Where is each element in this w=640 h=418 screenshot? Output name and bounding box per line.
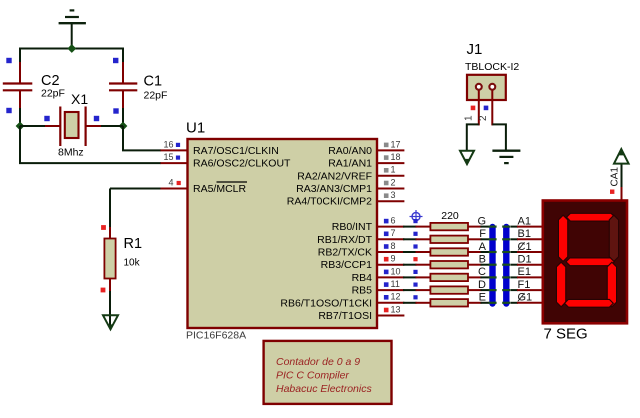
svg-text:RA0/AN0: RA0/AN0 [328,145,372,157]
wire pin to resistor R6 [403,276,417,278]
wire R1 to power arrow [109,291,111,325]
wire down to R1 [109,189,111,229]
pin number 1 [384,165,396,175]
pin 2 lead J1 [478,90,492,125]
svg-text:TBLOCK-I2: TBLOCK-I2 [465,61,519,73]
power arrow down (R1) [103,315,118,329]
wire left junction to crystal [20,125,46,127]
wire bus to display E1 [511,276,519,278]
pin number 6 [384,216,396,226]
svg-text:C1: C1 [144,74,163,90]
wire C2 top lead [19,49,21,64]
pin 8 stub [377,251,404,253]
pin number 12 [384,292,401,302]
resistor R8 220 [413,295,481,306]
node F1 label [518,279,531,291]
wire pin to resistor R4 [403,251,417,253]
bus entry left [489,276,497,278]
node B1 label [518,228,531,240]
pin 12 stub [377,302,404,304]
resistor R1 10k [101,225,142,292]
svg-text:13: 13 [391,304,401,314]
svg-text:22pF: 22pF [144,90,168,102]
pin number 2 [384,177,396,187]
svg-text:D1: D1 [518,254,532,266]
svg-text:10: 10 [391,266,401,276]
svg-text:16: 16 [163,139,173,149]
wire ground to junction [71,24,73,49]
wire C1 top lead [122,49,124,64]
svg-text:9: 9 [391,254,396,264]
svg-text:F: F [479,228,486,240]
wire CA1 to display [621,186,623,201]
bus entry left [489,289,497,291]
pin 17 stub [377,149,404,151]
pin 7 stub [377,238,404,240]
svg-text:RB2/TX/CK: RB2/TX/CK [318,247,372,259]
wire J1 pin1 to power arrow [467,124,479,151]
wire bus to display F1 [511,289,519,291]
svg-text:RA3/AN3/CMP1: RA3/AN3/CMP1 [296,183,372,195]
svg-text:G: G [477,215,486,227]
wire bus to display G1 [511,302,519,304]
svg-text:RB7/T1OSI: RB7/T1OSI [318,310,372,322]
svg-text:3: 3 [391,190,396,200]
bus entry right [502,264,510,266]
connector J1 TBLOCK-I2 [465,41,519,100]
bus entry left [489,238,497,240]
wire C1 bottom lead [122,108,124,126]
svg-text:RB3/CCP1: RB3/CCP1 [321,259,373,271]
bus entry left [489,302,497,304]
pin 11 stub [377,289,404,291]
svg-text:R1: R1 [124,236,143,252]
svg-text:18: 18 [391,152,401,162]
bus entry right [502,226,510,228]
pin number 7 [384,228,396,238]
svg-text:F1: F1 [518,279,531,291]
svg-text:6: 6 [391,216,396,226]
pin 4 stub [161,188,187,190]
pin 13 stub [377,315,404,317]
wire resistor to bus [481,264,490,266]
svg-text:2: 2 [478,115,489,121]
wire bus to display A1 [511,226,519,228]
svg-text:RA7/OSC1/CLKIN: RA7/OSC1/CLKIN [193,145,279,157]
bus entry left [489,251,497,253]
wire left junction down to pin15 [19,126,21,163]
svg-text:4: 4 [168,177,173,187]
wire pin to resistor R7 [403,289,417,291]
svg-text:A: A [479,241,487,253]
wire bus to display C1 [511,251,519,253]
pin number 4 [168,177,180,187]
svg-text:22pF: 22pF [41,88,65,100]
segment B (unlit) [609,215,618,261]
wire right junction down to pin16 [122,126,124,150]
pin number 15 [163,152,180,162]
wire pin4 to R1 [110,188,161,190]
bus 1 (left) [489,227,495,304]
capacitor C2 [3,58,65,113]
capacitor C1 [109,58,167,114]
op-amp U1 PIC16F628A body [186,120,377,342]
bus entry right [502,238,510,240]
pin number 10 [384,266,401,276]
bus entry right [502,251,510,253]
wire resistor to bus [481,289,490,291]
pin 10 stub [377,276,404,278]
svg-text:RA4/T0CKI/CMP2: RA4/T0CKI/CMP2 [287,196,372,208]
pin 2 stub [377,188,404,190]
pin number 9 [384,254,396,264]
pin number 16 [163,139,180,149]
bus entry right [502,289,510,291]
resistor R4 220 [413,244,481,255]
svg-text:E1: E1 [518,266,531,278]
svg-text:E: E [479,292,486,304]
pin 9 stub [377,264,404,266]
svg-text:7 SEG: 7 SEG [544,326,588,343]
resistor R3 220 [413,232,481,243]
svg-text:RB5: RB5 [352,285,373,297]
svg-text:17: 17 [391,139,401,149]
wire resistor to bus [481,302,490,304]
pin name RA5/MCLR with overline [193,182,247,195]
wire C2 bottom lead [19,108,21,126]
wire crystal to right junction [101,125,123,127]
svg-text:RA2/AN2/VREF: RA2/AN2/VREF [297,170,372,182]
svg-text:RB4: RB4 [352,272,373,284]
svg-text:A1: A1 [518,215,531,227]
pin 6 stub [377,226,404,228]
wire to OSC1 pin16 [122,149,161,151]
origin marker crosshair [410,210,423,223]
bus entry left [489,226,497,228]
svg-text:C: C [478,266,486,278]
svg-text:11: 11 [391,279,400,289]
svg-text:RA1/AN1: RA1/AN1 [328,158,372,170]
svg-text:CA1: CA1 [609,167,620,187]
node CA1 label [609,167,620,194]
segment A (lit) [567,213,616,221]
pin 1 stub [377,175,404,177]
segment C (lit) [607,262,616,307]
svg-text:1: 1 [464,115,475,121]
svg-text:G1: G1 [518,292,533,304]
svg-text:RB0/INT: RB0/INT [332,221,373,233]
pin 3 stub [377,200,404,202]
segment G (lit) [566,258,614,266]
resistor R7 220 [413,283,481,294]
svg-text:8: 8 [391,241,396,251]
svg-text:10k: 10k [124,258,141,269]
pin number 11 [384,279,400,289]
svg-text:Habacuc Electronics: Habacuc Electronics [276,383,372,395]
wire pin to resistor R2 [403,226,417,228]
svg-text:X1: X1 [71,91,88,107]
resistor R2 220 [413,219,481,230]
svg-text:B: B [479,254,486,266]
svg-text:D: D [478,279,486,291]
svg-text:PIC16F628A: PIC16F628A [186,330,246,342]
node junction right (C1/X1) [119,122,128,131]
pin number 18 [384,152,401,162]
svg-text:PIC C Compiler: PIC C Compiler [276,370,349,382]
node junction top [67,44,76,53]
node junction left (C2/X1) [16,122,25,131]
svg-text:RB1/RX/DT: RB1/RX/DT [317,234,372,246]
7-segment display body [543,201,627,324]
ground (top, GND for C1/C2) [59,10,86,23]
node D1 label [518,254,532,266]
resistor R5 220 [413,257,481,268]
segment E (lit) [556,262,565,307]
node A1 label [518,215,531,227]
wire J1 pin2 to ground [492,124,506,150]
power arrow up CA1 [614,149,629,164]
pin number 13 [384,304,401,314]
svg-text:220: 220 [441,210,459,222]
svg-text:7: 7 [391,228,396,238]
svg-text:8Mhz: 8Mhz [58,146,84,158]
svg-text:RA5/MCLR: RA5/MCLR [193,183,247,195]
svg-text:RA6/OSC2/CLKOUT: RA6/OSC2/CLKOUT [193,158,291,170]
pin 16 stub [161,149,187,151]
wire bus to display D1 [511,264,519,266]
node E1 label [518,266,531,278]
wire pin to resistor R5 [403,264,417,266]
svg-text:J1: J1 [467,41,483,58]
pin number 8 [384,241,396,251]
pin number 17 [384,139,401,149]
svg-text:Contador de 0 a 9: Contador de 0 a 9 [276,356,360,368]
svg-text:15: 15 [163,152,173,162]
wire to OSC2 pin15 [19,162,161,164]
svg-text:1: 1 [391,165,396,175]
bus entry right [502,276,510,278]
segment F (lit) [558,215,567,261]
annotation text box [264,341,392,404]
wire top horizontal C2 to C1 [19,48,124,50]
svg-text:B1: B1 [518,228,531,240]
ground (J1 pin2) [492,151,520,163]
segment D (lit) [565,299,614,307]
pin 18 stub [377,162,404,164]
wire resistor to bus [481,238,490,240]
node C1 label [518,241,532,253]
bus entry left [489,264,497,266]
wire bus to display B1 [511,238,519,240]
wire resistor to bus [481,226,490,228]
bus entry right [502,302,510,304]
svg-text:12: 12 [391,292,401,302]
pin 1 lead J1 [464,90,479,125]
resistor R6 220 [413,270,481,281]
wire pin to resistor R3 [403,238,417,240]
wire resistor to bus [481,251,490,253]
svg-text:RB6/T1OSO/T1CKI: RB6/T1OSO/T1CKI [280,297,372,309]
power arrow down (J1) [460,151,474,164]
svg-text:U1: U1 [186,120,205,137]
wire resistor to bus [481,276,490,278]
bus 2 (right) [503,227,509,304]
pin 15 stub [161,162,187,164]
crystal X1 8Mhz [44,91,102,159]
node G1 label [518,292,533,304]
pin number 3 [384,190,396,200]
svg-text:2: 2 [391,177,396,187]
wire pin to resistor R8 [403,302,417,304]
